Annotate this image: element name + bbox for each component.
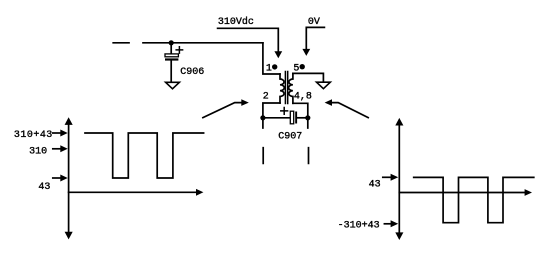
capacitor C907 right plate (solid) [295,112,297,124]
transformer T1 core lines [285,72,287,104]
svg-text:1: 1 [266,63,272,74]
svg-text:C906: C906 [180,67,204,78]
svg-text:0V: 0V [308,17,320,28]
right plot horizontal axis [399,192,525,194]
arrow 310+43 [53,132,61,134]
node left junction dot [260,115,265,120]
svg-text:-310+43: -310+43 [338,220,380,231]
capacitor C907 left plate (hollow) [290,111,293,124]
svg-text:43: 43 [38,182,50,193]
arrowhead left x-axis [196,189,203,196]
transformer T1 secondary winding (right) [289,73,293,103]
wire stub below left node [262,118,264,128]
node right junction dot [305,115,310,120]
arrowhead pointer right [325,99,332,106]
pointer arrow left (to transformer) [203,103,242,118]
svg-text:310+43: 310+43 [14,130,53,141]
wire broken-line dash top-left [113,42,129,44]
svg-text:4,8: 4,8 [294,91,312,102]
arrowhead 310Vdc down [274,51,282,58]
wire node to C907 left [263,117,290,119]
arrowhead left axis up [65,117,73,125]
wire pin5 to ground [293,73,324,82]
wire broken-line dash below right node [308,148,310,164]
left plot horizontal axis [69,191,197,193]
pointer arrow right (to transformer) [332,103,368,118]
wire stub below right node [307,118,309,128]
arrowhead left axis down [65,232,73,240]
left plot vertical axis [68,124,70,233]
wire pin1 from rail down and to winding [263,43,280,74]
arrowhead pointer left [241,99,249,106]
capacitor C906 top plate (hollow) [165,54,178,57]
right plot waveform [414,177,534,222]
wire C906 bottom lead [170,61,172,82]
arrow 43 left [53,177,61,179]
capacitor C906 bottom plate (solid) [165,58,178,60]
wire C907 right to node [297,117,308,119]
wire main top rail [143,42,263,44]
arrowhead right axis up [395,118,403,126]
node C906 junction dot [169,40,174,45]
arrow -310+43 [384,223,390,225]
right plot vertical axis [398,125,400,234]
arrow 310 [53,148,61,150]
wire 310Vdc leader line [218,28,279,51]
left plot waveform [85,133,204,178]
svg-text:2: 2 [263,92,269,103]
capacitor C906 plus sign [176,47,182,53]
capacitor C907 plus sign [281,108,288,115]
arrowhead 0V down [302,49,310,56]
arrowhead right axis down [395,232,403,240]
node pin 1 dot [272,64,277,69]
wire broken-line dash below left node [262,148,264,164]
wire C906 top lead [170,43,172,54]
svg-text:C907: C907 [278,131,302,142]
svg-text:43: 43 [369,180,381,191]
transformer T1 primary winding (left) [280,74,284,103]
ground right [317,82,331,89]
svg-text:310: 310 [29,147,47,158]
wire winding right bottom to node [293,103,308,118]
node pin 5 dot [300,64,305,69]
arrowhead right x-axis [525,189,532,196]
svg-text:310Vdc: 310Vdc [218,16,254,28]
wire 0V leader line [306,27,324,49]
wire winding left bottom to node [263,103,280,118]
arrow 43 right [383,176,391,178]
ground C906 [166,82,180,89]
